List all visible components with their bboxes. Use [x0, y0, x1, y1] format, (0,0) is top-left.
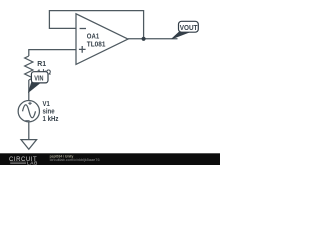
- inverting input mark: [80, 28, 86, 30]
- svg-text:circuitlab.com/c/xkbljk5aae76: circuitlab.com/c/xkbljk5aae76: [50, 158, 100, 162]
- wire resistor to source: [28, 80, 30, 101]
- flag VIN: [29, 83, 41, 93]
- watermark bar: [0, 153, 220, 165]
- svg-text:TL081: TL081: [87, 39, 106, 48]
- op-amp OA1: [76, 14, 128, 65]
- wire output: [128, 38, 178, 40]
- node junction on output: [142, 37, 146, 41]
- wire non-inverting input: [29, 50, 76, 56]
- wire feedback loop (output to inverting input): [49, 11, 143, 39]
- svg-text:VIN: VIN: [34, 74, 43, 83]
- resistor R1: [25, 56, 33, 80]
- source V1: [18, 101, 39, 122]
- ground: [21, 140, 37, 150]
- svg-text:LAB: LAB: [27, 160, 38, 165]
- sine symbol: [23, 105, 36, 118]
- wire source to ground: [28, 122, 30, 140]
- plus polarity mark: [28, 102, 31, 105]
- non-inverting input mark: [79, 46, 86, 53]
- svg-text:1 kHz: 1 kHz: [43, 114, 59, 123]
- svg-text:VOUT: VOUT: [180, 23, 198, 32]
- minus polarity mark: [25, 120, 29, 122]
- flag VOUT: [172, 32, 189, 39]
